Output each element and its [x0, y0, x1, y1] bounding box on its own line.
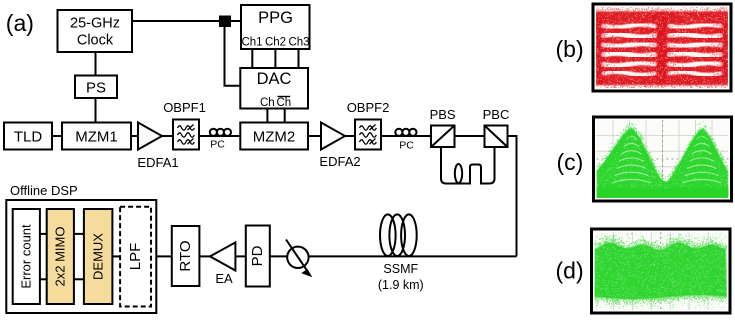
svg-text:Offline DSP: Offline DSP	[10, 183, 78, 198]
svg-text:(b): (b)	[556, 36, 584, 62]
svg-text:PS: PS	[86, 80, 106, 97]
svg-text:MZM1: MZM1	[75, 129, 118, 146]
svg-text:SSMF: SSMF	[383, 262, 418, 276]
svg-text:(c): (c)	[557, 149, 584, 175]
svg-text:EDFA1: EDFA1	[137, 155, 178, 170]
svg-text:Clock: Clock	[77, 33, 114, 49]
svg-text:Ch3: Ch3	[288, 37, 309, 49]
svg-text:2x2 MIMO: 2x2 MIMO	[53, 227, 68, 287]
svg-text:(1.9 km): (1.9 km)	[378, 278, 424, 292]
svg-text:PPG: PPG	[258, 9, 293, 27]
svg-text:EA: EA	[215, 271, 233, 286]
svg-text:Ch: Ch	[260, 97, 275, 109]
svg-text:DEMUX: DEMUX	[90, 233, 105, 280]
svg-text:Ch1: Ch1	[241, 37, 262, 49]
svg-text:OBPF1: OBPF1	[163, 100, 206, 115]
svg-text:PD: PD	[249, 245, 266, 266]
svg-text:Error count: Error count	[19, 224, 34, 289]
svg-text:OBPF2: OBPF2	[347, 100, 390, 115]
svg-text:PBS: PBS	[430, 107, 456, 122]
svg-text:(d): (d)	[556, 258, 584, 284]
svg-text:Ch2: Ch2	[265, 37, 286, 49]
svg-text:(a): (a)	[6, 10, 34, 36]
svg-text:PC: PC	[210, 139, 225, 151]
svg-text:PBC: PBC	[483, 107, 510, 122]
svg-text:DAC: DAC	[257, 70, 292, 88]
svg-text:Ch: Ch	[276, 97, 291, 109]
svg-text:LPF: LPF	[127, 243, 144, 271]
svg-text:PC: PC	[399, 140, 414, 152]
svg-text:MZM2: MZM2	[253, 129, 296, 146]
svg-text:TLD: TLD	[14, 129, 43, 146]
svg-text:EDFA2: EDFA2	[319, 154, 360, 169]
svg-text:RTO: RTO	[177, 240, 194, 271]
svg-text:25-GHz: 25-GHz	[70, 16, 120, 32]
